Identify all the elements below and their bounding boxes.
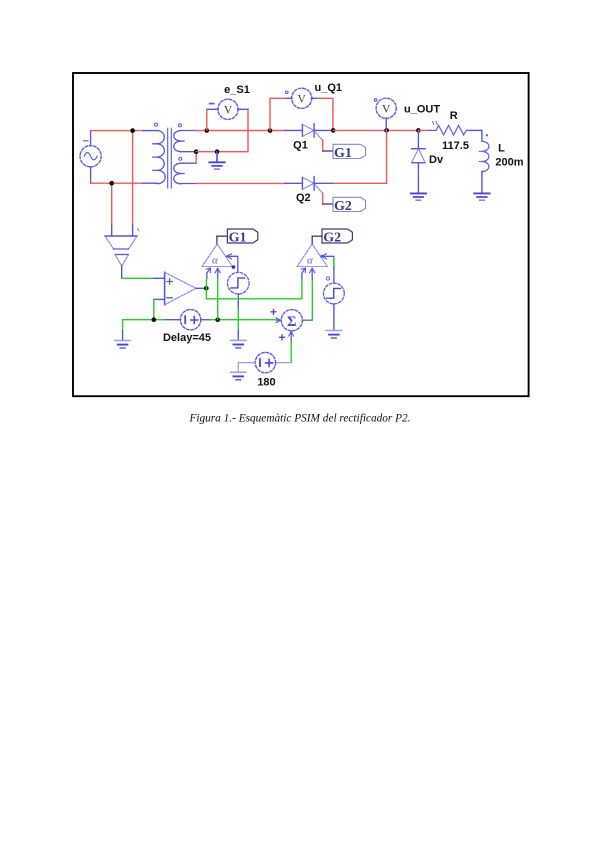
- wire riser to sensor right: [132, 131, 134, 225]
- wire Q2 row: [196, 182, 285, 184]
- svg-text:u_OUT: u_OUT: [404, 104, 440, 116]
- wire: [275, 362, 291, 364]
- summer sigma: [276, 310, 312, 342]
- svg-text:Dv: Dv: [429, 154, 444, 166]
- junction out node: [384, 128, 389, 133]
- svg-text:Q1: Q1: [293, 139, 308, 151]
- wire riser to sensor left: [111, 183, 113, 225]
- alpha controller 2: [297, 236, 327, 266]
- ground at L: [474, 193, 489, 200]
- AC source VSIN: [80, 131, 101, 184]
- wire green segment on alpha2 sync: [333, 258, 335, 268]
- sensor triangle: [115, 255, 129, 279]
- wire u_Q1 right to node K1: [317, 98, 333, 130]
- junction Dv node: [416, 128, 421, 133]
- alpha2 delay-input arrow: [310, 268, 315, 278]
- wire center tap to ground: [196, 151, 217, 153]
- svg-text:Figura 1.- Esquemàtic PSIM del: Figura 1.- Esquemàtic PSIM del rectifica…: [188, 413, 410, 425]
- svg-text:G2: G2: [334, 199, 352, 214]
- junction: [205, 128, 210, 133]
- junction: [194, 149, 199, 154]
- ground at center tap: [209, 152, 224, 169]
- polarity mark alpha2: [326, 277, 329, 280]
- wire: [143, 182, 157, 184]
- voltage sensor (trapezoid): [105, 229, 139, 250]
- svg-text:e_S1: e_S1: [224, 84, 250, 96]
- junction: [109, 181, 114, 186]
- svg-text:R: R: [450, 110, 458, 122]
- junction delay line left: [152, 317, 157, 322]
- step source 1 (sync): [228, 272, 250, 309]
- wire: [154, 277, 165, 279]
- wire summer output up to alpha2: [311, 279, 313, 321]
- wire inverting input down to delay line: [153, 299, 155, 319]
- svg-text:+: +: [279, 331, 286, 345]
- wire delay output up to alpha1: [217, 279, 219, 320]
- resistor R: [418, 122, 482, 136]
- voltmeter u_Q1: [285, 88, 317, 108]
- svg-text:L: L: [498, 143, 505, 155]
- wire e_S1 left to node A: [206, 109, 208, 130]
- sensor riser stubs: [111, 225, 113, 236]
- wire sensor to comparator: [122, 277, 154, 279]
- control block G1: [227, 229, 257, 246]
- alpha1 delay-input arrow: [215, 268, 220, 278]
- svg-text:α: α: [307, 255, 313, 267]
- svg-text:u_Q1: u_Q1: [315, 82, 343, 94]
- node A wire: [207, 130, 285, 132]
- alpha2 sync arrow from step source: [320, 254, 334, 269]
- alpha2 enable arrow: [301, 268, 305, 278]
- ground at delay input: [115, 341, 130, 349]
- alpha1 sync arrow from step source: [227, 254, 238, 273]
- svg-text:G1: G1: [229, 231, 247, 246]
- inductor L: [479, 130, 489, 193]
- ground at Dv: [411, 193, 426, 200]
- wire bottom source to transformer primary: [91, 182, 143, 184]
- wire top source to transformer primary: [91, 130, 143, 132]
- junction delay output: [215, 317, 220, 322]
- wire: [143, 130, 157, 132]
- junction K1: [331, 128, 336, 133]
- wire secondary top to node A: [196, 130, 207, 132]
- source 180: [238, 352, 275, 372]
- wire: [323, 203, 333, 205]
- alpha1 enable arrow: [206, 268, 210, 278]
- alpha controller 1: [202, 236, 235, 269]
- wire Q1 gate: [322, 140, 324, 151]
- wire delay left to ground: [123, 320, 164, 331]
- svg-text:G2: G2: [323, 231, 341, 246]
- diode Dv: [412, 130, 426, 193]
- junction: [215, 149, 220, 154]
- wire Q2 gate: [322, 193, 324, 204]
- svg-text:+: +: [270, 305, 277, 319]
- svg-text:G1: G1: [334, 146, 352, 161]
- wire comparator output to alpha1 enable: [205, 279, 207, 289]
- wire Q2 cathode to out node: [334, 130, 387, 183]
- wire: [323, 150, 333, 152]
- wire comparator output down and right to alpha2: [206, 279, 302, 299]
- wire u_Q1 left to node A: [270, 98, 285, 130]
- frame border of figure: [73, 73, 529, 396]
- gate block G1: [333, 144, 366, 161]
- wire center tap line to e_S1: [217, 109, 248, 151]
- svg-text:200m: 200m: [495, 157, 523, 169]
- svg-text:Σ: Σ: [287, 314, 296, 330]
- svg-text:180: 180: [257, 377, 275, 389]
- gate block G2: [333, 197, 366, 214]
- junction: [268, 128, 273, 133]
- wire delay output to summer: [211, 319, 277, 321]
- svg-text:117.5: 117.5: [442, 140, 469, 152]
- wire center-tap stub: [195, 152, 197, 164]
- wire node K1 to out node: [333, 129, 418, 131]
- ground at step source 1: [231, 340, 246, 348]
- control block G2: [322, 229, 352, 246]
- voltmeter u_OUT: [374, 98, 396, 130]
- svg-text:V: V: [224, 105, 233, 117]
- svg-text:α: α: [212, 255, 218, 267]
- wire step1 to ground: [237, 309, 239, 330]
- step source 2 (sync): [324, 268, 345, 330]
- junction comparator output: [204, 286, 209, 291]
- op-amp comparator: [154, 272, 207, 305]
- svg-text:V: V: [298, 94, 307, 106]
- voltmeter e_S1: [207, 99, 248, 119]
- svg-text:Delay=45: Delay=45: [163, 332, 211, 344]
- ground at 180 source: [231, 372, 246, 380]
- thyristor Q1: [285, 124, 333, 141]
- thyristor Q2: [285, 177, 334, 194]
- svg-text:Q2: Q2: [296, 192, 311, 204]
- junction: [130, 128, 135, 133]
- transformer T1: [153, 123, 196, 188]
- delay source circle: [164, 310, 211, 330]
- svg-text:V: V: [382, 104, 391, 116]
- ground at step source 2: [326, 331, 341, 339]
- wire summer bottom to 180 source: [290, 342, 292, 363]
